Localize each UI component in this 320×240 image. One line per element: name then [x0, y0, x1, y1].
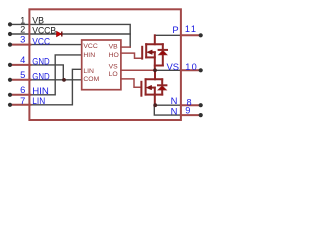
svg-text:7: 7 [20, 95, 25, 106]
svg-text:HIN: HIN [32, 86, 49, 96]
svg-text:HIN: HIN [83, 52, 95, 59]
svg-text:VCC: VCC [32, 36, 50, 46]
svg-text:4: 4 [20, 54, 25, 65]
svg-text:VS: VS [166, 61, 179, 72]
svg-text:6: 6 [20, 84, 25, 95]
svg-text:9: 9 [185, 105, 190, 115]
svg-text:VS: VS [109, 63, 119, 70]
svg-text:GND: GND [32, 71, 50, 81]
svg-text:GND: GND [32, 56, 50, 66]
svg-text:COM: COM [83, 76, 99, 83]
svg-text:VCC: VCC [83, 43, 97, 50]
svg-text:11: 11 [185, 24, 198, 34]
svg-text:10: 10 [185, 62, 198, 72]
svg-text:5: 5 [20, 69, 25, 80]
svg-text:HO: HO [109, 52, 119, 59]
svg-text:LIN: LIN [83, 68, 94, 75]
svg-text:VCCB: VCCB [32, 26, 56, 36]
svg-text:LIN: LIN [32, 96, 45, 106]
svg-text:VB: VB [32, 16, 44, 26]
svg-text:3: 3 [20, 34, 25, 45]
svg-text:N: N [171, 105, 178, 116]
svg-text:LO: LO [109, 71, 118, 78]
svg-text:P: P [172, 24, 178, 35]
svg-text:VB: VB [109, 43, 119, 50]
